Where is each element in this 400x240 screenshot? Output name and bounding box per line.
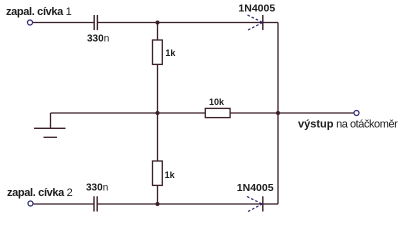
wire D1 to right rail bbox=[263, 22, 278, 24]
terminal J3 output bbox=[354, 111, 359, 116]
wire R3 to bottom node bbox=[157, 185, 159, 204]
terminal J1 bbox=[28, 20, 33, 25]
diode D2 anode dashes bbox=[247, 197, 262, 212]
svg-text:10k: 10k bbox=[209, 97, 225, 107]
wire D2 to right rail bbox=[263, 203, 278, 205]
ground bbox=[34, 113, 66, 137]
svg-text:330n: 330n bbox=[86, 183, 108, 194]
wire J1 to C1 bbox=[33, 22, 94, 24]
node junction mid (R1/R2 tap) bbox=[156, 111, 160, 115]
diode D2 cathode bar bbox=[262, 196, 264, 211]
wire right rail vertical bbox=[277, 23, 279, 205]
svg-text:330n: 330n bbox=[87, 34, 109, 45]
wire C2 to D2 bbox=[97, 203, 262, 205]
wire R1 to mid node bbox=[157, 64, 159, 113]
diode D1 cathode bar bbox=[262, 15, 264, 30]
resistor R2 10k bbox=[205, 108, 230, 117]
capacitor C2 330n bbox=[94, 196, 97, 211]
terminal J2 bbox=[28, 201, 33, 206]
node junction bottom (R3 tap) bbox=[156, 202, 160, 206]
resistor R3 1k bbox=[153, 161, 163, 185]
wire mid node to R3 bbox=[157, 113, 159, 161]
wire ground to R2 bbox=[51, 112, 206, 114]
wire top node to R1 bbox=[157, 23, 159, 41]
wire C1 to D1 bbox=[97, 22, 262, 24]
resistor R1 1k bbox=[153, 40, 163, 64]
wire J2 to C2 bbox=[34, 203, 95, 205]
capacitor C1 330n bbox=[94, 15, 97, 30]
node junction top (R1 tap) bbox=[156, 21, 160, 25]
svg-text:výstup na otáčkoměr: výstup na otáčkoměr bbox=[298, 119, 398, 131]
svg-text:1N4005: 1N4005 bbox=[237, 182, 274, 194]
svg-text:zapal. cívka 1: zapal. cívka 1 bbox=[6, 6, 72, 18]
svg-text:1N4005: 1N4005 bbox=[238, 2, 275, 14]
svg-text:1k: 1k bbox=[165, 170, 176, 180]
svg-text:1k: 1k bbox=[165, 48, 176, 58]
svg-text:zapal. cívka 2: zapal. cívka 2 bbox=[7, 187, 73, 199]
wire R2 to output terminal bbox=[230, 112, 353, 114]
node junction right rail bbox=[276, 111, 280, 115]
diode D1 anode dashes bbox=[248, 15, 263, 30]
